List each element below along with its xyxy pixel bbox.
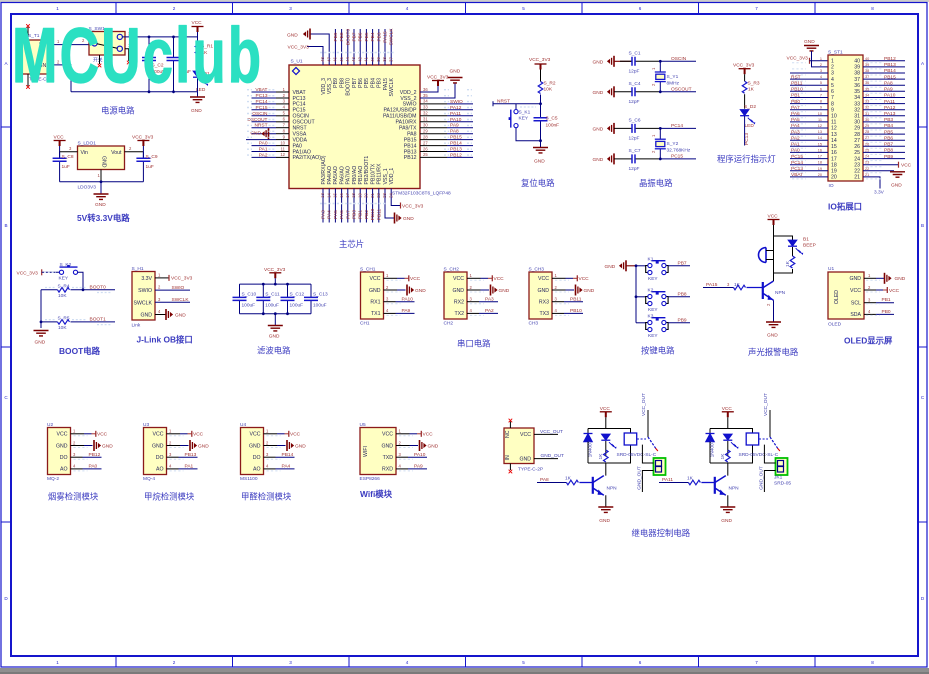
svg-text:VCC_3V3: VCC_3V3 xyxy=(427,75,449,81)
mcu top pin names xyxy=(321,77,395,96)
svg-text:PB4: PB4 xyxy=(884,123,893,129)
junction S_C2 xyxy=(148,36,151,39)
header S_H1 xyxy=(132,266,156,329)
U5 pin numbers xyxy=(399,429,402,469)
svg-text:OSCOUT: OSCOUT xyxy=(671,87,692,93)
svg-text:25: 25 xyxy=(865,148,869,152)
power symbol VCC xyxy=(54,135,66,159)
power symbol VCC xyxy=(768,214,780,237)
S_CH1 pin3 wire net PA10 xyxy=(384,297,415,303)
svg-text:PA0: PA0 xyxy=(89,464,98,470)
svg-text:PB10/TX: PB10/TX xyxy=(370,163,376,184)
svg-text:PB4: PB4 xyxy=(370,32,376,41)
svg-text:1N4007: 1N4007 xyxy=(588,440,594,457)
svg-text:VCC: VCC xyxy=(453,276,464,282)
svg-text:S_K2: S_K2 xyxy=(60,262,72,268)
svg-text:PB8: PB8 xyxy=(678,291,687,297)
resistor S_R2 10K xyxy=(538,81,556,104)
svg-text:VCC_3V3: VCC_3V3 xyxy=(264,267,286,273)
svg-text:PB15: PB15 xyxy=(450,135,462,141)
svg-text:5: 5 xyxy=(831,83,834,89)
svg-text:PB7: PB7 xyxy=(678,260,687,266)
svg-text:35: 35 xyxy=(854,89,860,95)
button S_K2 KEY xyxy=(59,262,78,282)
svg-text:18: 18 xyxy=(351,193,356,198)
U2 pin3 wire net PB12 xyxy=(71,452,102,458)
svg-text:S_CH3: S_CH3 xyxy=(529,267,545,273)
junctions bottom xyxy=(262,312,289,315)
svg-text:2: 2 xyxy=(173,660,176,665)
svg-text:3: 3 xyxy=(820,69,822,73)
svg-text:7: 7 xyxy=(755,660,758,665)
svg-text:33: 33 xyxy=(865,100,869,104)
connector U3 MQ-4 xyxy=(143,422,167,482)
svg-text:4: 4 xyxy=(831,77,834,83)
svg-text:BOOT0: BOOT0 xyxy=(346,78,352,96)
svg-text:VCC: VCC xyxy=(97,432,108,438)
svg-text:1K: 1K xyxy=(687,476,694,482)
svg-text:PB11: PB11 xyxy=(570,297,582,303)
svg-text:RX3: RX3 xyxy=(539,300,549,306)
svg-text:25: 25 xyxy=(423,152,428,157)
svg-text:PB5: PB5 xyxy=(364,32,370,41)
crystal S_Y1 8MHz xyxy=(651,61,680,92)
svg-text:PB6: PB6 xyxy=(358,78,364,88)
mcu top pin wires 48-37 xyxy=(307,29,391,65)
relay coil xyxy=(746,433,759,445)
svg-text:PA12: PA12 xyxy=(884,105,896,111)
svg-text:SWIO: SWIO xyxy=(172,285,185,291)
svg-text:GND: GND xyxy=(152,443,164,449)
svg-text:17: 17 xyxy=(831,156,837,162)
svg-text:40: 40 xyxy=(370,57,375,62)
svg-text:1: 1 xyxy=(56,660,59,665)
relay actuation dashed link xyxy=(637,438,646,440)
svg-text:VSS_1: VSS_1 xyxy=(383,168,389,184)
net label VCC_3V3 bottom VDD_1 xyxy=(401,203,424,210)
U4 pin2 wire to GND flag xyxy=(264,440,307,451)
svg-text:18: 18 xyxy=(818,161,822,165)
svg-text:VCC: VCC xyxy=(423,432,434,438)
svg-text:29: 29 xyxy=(423,129,428,134)
selection dashes mcu top xyxy=(320,52,394,54)
wire T1 VCC to SW1 xyxy=(53,44,89,46)
svg-text:6: 6 xyxy=(639,6,642,11)
relay output terminal block xyxy=(776,458,788,475)
svg-text:11: 11 xyxy=(281,146,286,151)
svg-text:GND: GND xyxy=(140,313,152,319)
svg-text:S_K1: S_K1 xyxy=(519,110,531,116)
junction bottom C2 xyxy=(148,90,151,93)
svg-text:GND: GND xyxy=(849,276,861,282)
top rail xyxy=(588,429,631,434)
svg-text:S_C1: S_C1 xyxy=(629,51,641,57)
svg-text:PB14: PB14 xyxy=(282,452,294,458)
svg-text:TX3: TX3 xyxy=(539,311,549,317)
base resistor 1K xyxy=(703,282,763,290)
svg-text:PA10: PA10 xyxy=(884,93,896,99)
svg-text:11: 11 xyxy=(818,118,822,122)
svg-text:8: 8 xyxy=(820,100,822,104)
capacitor S_C5 100nF xyxy=(534,104,560,141)
svg-text:TYPE-C-2P: TYPE-C-2P xyxy=(518,467,543,473)
svg-text:1K: 1K xyxy=(720,453,726,460)
svg-text:32: 32 xyxy=(423,111,428,116)
top rail xyxy=(240,283,312,285)
svg-text:DO: DO xyxy=(156,455,164,461)
ground symbol GND right xyxy=(448,69,463,83)
selection dashes boot xyxy=(44,107,536,325)
svg-text:35: 35 xyxy=(423,93,428,98)
node NRST xyxy=(539,102,542,105)
svg-text:VCC_3V3: VCC_3V3 xyxy=(171,276,193,282)
svg-text:GND: GND xyxy=(287,33,298,39)
svg-text:34: 34 xyxy=(423,99,428,104)
capacitor S_C8 1uF xyxy=(53,152,74,182)
svg-text:24: 24 xyxy=(854,156,860,162)
U2 pin1 wire to VCC xyxy=(71,431,108,438)
base resistor 1K PA11 xyxy=(659,476,715,485)
bottom rail xyxy=(710,445,753,463)
S_CH3 pin2 wire to GND flag xyxy=(552,285,595,296)
capacitor S_C9 1uF xyxy=(136,152,157,182)
svg-text:GND: GND xyxy=(804,39,815,45)
connector S_T2 TYPE-C-2P output xyxy=(504,428,543,473)
svg-text:GND: GND xyxy=(415,288,426,294)
svg-text:S_ST1: S_ST1 xyxy=(828,50,843,56)
svg-text:VCC: VCC xyxy=(768,214,779,220)
svg-text:IO拓展口: IO拓展口 xyxy=(828,202,862,212)
svg-text:35: 35 xyxy=(865,87,869,91)
svg-text:RX2: RX2 xyxy=(454,300,464,306)
svg-text:SWCLK: SWCLK xyxy=(134,300,153,306)
U3 pin3 wire net PB13 xyxy=(167,452,198,458)
power symbol VCC_3V3 right xyxy=(427,75,449,87)
power symbol VCC_3V3 xyxy=(132,135,154,159)
svg-text:1uF: 1uF xyxy=(62,164,70,170)
svg-text:VCC_3V3: VCC_3V3 xyxy=(529,57,551,63)
capacitor S_C13 100uF xyxy=(304,284,328,314)
svg-text:主芯片: 主芯片 xyxy=(339,239,364,249)
header left wires xyxy=(790,73,828,177)
svg-text:GND: GND xyxy=(767,333,778,339)
svg-text:S_C13: S_C13 xyxy=(313,291,328,297)
svg-text:3: 3 xyxy=(289,6,292,11)
row OSCOUT: gnd flag + cap S_C4 xyxy=(593,81,661,105)
wire GND_OUT xyxy=(534,453,564,459)
svg-text:KEY: KEY xyxy=(648,333,658,339)
ground GND top xyxy=(804,39,828,67)
wire pin23 VCC xyxy=(863,162,912,169)
svg-text:PB13: PB13 xyxy=(185,452,197,458)
junctions top xyxy=(262,283,289,286)
svg-text:12pF: 12pF xyxy=(629,166,640,172)
svg-text:VCC: VCC xyxy=(494,276,505,282)
svg-text:36: 36 xyxy=(423,87,428,92)
svg-text:NC: NC xyxy=(505,430,511,438)
svg-text:OSCIN: OSCIN xyxy=(252,111,268,117)
svg-text:LED: LED xyxy=(745,123,755,129)
svg-text:GND: GND xyxy=(250,131,261,137)
gnd flag VSSA xyxy=(250,128,268,139)
svg-text:5V转3.3V电路: 5V转3.3V电路 xyxy=(77,213,130,223)
pin3 wire SCL net PB1 xyxy=(864,297,894,303)
svg-text:S_C7: S_C7 xyxy=(629,148,641,154)
svg-text:10K: 10K xyxy=(58,325,67,331)
svg-text:GND: GND xyxy=(249,443,261,449)
svg-text:PB0: PB0 xyxy=(882,309,891,315)
svg-text:GND: GND xyxy=(95,202,106,208)
svg-text:38: 38 xyxy=(854,71,860,77)
svg-text:42: 42 xyxy=(357,57,362,62)
svg-text:U2: U2 xyxy=(47,422,53,428)
svg-text:31: 31 xyxy=(423,117,428,122)
svg-text:8: 8 xyxy=(871,6,874,11)
svg-text:复位电路: 复位电路 xyxy=(521,178,555,188)
svg-text:PA9: PA9 xyxy=(884,87,893,93)
svg-text:U4: U4 xyxy=(240,422,246,428)
svg-text:OLED: OLED xyxy=(834,290,840,304)
resistor S_R1 1K xyxy=(195,42,213,71)
svg-text:GND: GND xyxy=(191,108,202,114)
svg-text:33: 33 xyxy=(423,105,428,110)
svg-text:PB12: PB12 xyxy=(450,152,462,158)
header right wires xyxy=(863,61,905,159)
svg-text:26: 26 xyxy=(854,144,860,150)
svg-text:GND: GND xyxy=(537,288,549,294)
junction bottom xyxy=(539,139,542,142)
svg-text:GND: GND xyxy=(599,518,610,524)
power symbol VCC_3V3 xyxy=(733,63,755,82)
svg-text:Wifi模块: Wifi模块 xyxy=(360,489,393,499)
svg-text:S_U1: S_U1 xyxy=(291,59,303,65)
svg-text:14: 14 xyxy=(326,193,331,198)
svg-text:PB8: PB8 xyxy=(339,78,345,88)
svg-text:GND: GND xyxy=(269,334,280,340)
pin4 wire SDA net PB0 xyxy=(864,309,894,315)
svg-text:PB13: PB13 xyxy=(450,147,462,153)
svg-text:100uF: 100uF xyxy=(265,303,279,309)
svg-text:VCC_OUT: VCC_OUT xyxy=(641,393,647,416)
svg-text:GND: GND xyxy=(593,90,604,96)
svg-text:PB6: PB6 xyxy=(884,135,893,141)
svg-text:PA2/TX(AO): PA2/TX(AO) xyxy=(293,155,322,161)
svg-text:GND: GND xyxy=(605,264,616,270)
svg-text:PA10: PA10 xyxy=(402,297,414,303)
svg-text:32: 32 xyxy=(854,107,860,113)
svg-text:47: 47 xyxy=(326,57,331,62)
watermark MCUclub xyxy=(12,12,263,99)
S_CH3 pin1 wire to VCC xyxy=(552,275,589,282)
svg-text:PA10: PA10 xyxy=(450,117,462,123)
S_CH1 pin numbers xyxy=(386,273,389,313)
svg-text:PA8: PA8 xyxy=(884,80,893,86)
svg-text:GND: GND xyxy=(593,126,604,132)
U2 pin numbers xyxy=(73,429,76,469)
svg-text:5: 5 xyxy=(522,6,525,11)
net OSCOUT xyxy=(659,87,696,94)
svg-text:VDD_3: VDD_3 xyxy=(321,78,327,95)
svg-text:GND: GND xyxy=(593,59,604,65)
svg-text:B: B xyxy=(921,223,924,228)
svg-text:PB11: PB11 xyxy=(376,208,382,220)
svg-text:PA9: PA9 xyxy=(402,308,411,314)
svg-text:PA4/AO: PA4/AO xyxy=(327,166,333,184)
top rail xyxy=(710,429,753,434)
svg-text:VCC: VCC xyxy=(54,135,65,141)
svg-text:GND: GND xyxy=(403,216,414,222)
svg-text:44: 44 xyxy=(345,57,350,62)
svg-text:LDO3V3: LDO3V3 xyxy=(78,185,97,191)
svg-text:36: 36 xyxy=(865,81,869,85)
svg-text:PA8: PA8 xyxy=(540,477,549,483)
svg-text:PC14: PC14 xyxy=(671,123,683,129)
pin numbers 1-4 xyxy=(158,272,161,314)
U3 pin1 wire to VCC xyxy=(167,431,204,438)
S_CH2 pin2 wire to GND flag xyxy=(467,285,510,296)
svg-text:21: 21 xyxy=(865,173,869,177)
svg-text:GND: GND xyxy=(56,443,68,449)
connector S_CH2 CH2 xyxy=(444,267,468,327)
svg-text:PA6/AO: PA6/AO xyxy=(339,166,345,184)
mcu left pin wires 1-12 xyxy=(246,92,289,157)
svg-text:NPN: NPN xyxy=(729,486,740,492)
row PC14: gnd flag + cap S_C6 xyxy=(593,118,661,142)
net label VCC_3V3 top VDD_3 xyxy=(288,45,310,51)
svg-text:1K: 1K xyxy=(748,87,755,93)
U4 pin3 wire net PB14 xyxy=(264,452,295,458)
svg-text:U1: U1 xyxy=(828,266,834,272)
svg-text:KEY: KEY xyxy=(519,116,529,122)
net VCC_OUT vertical xyxy=(641,393,648,437)
LDO GND pin wire xyxy=(100,170,102,182)
U4 pin numbers xyxy=(266,429,269,469)
junction xyxy=(100,180,103,183)
svg-text:PA0: PA0 xyxy=(259,141,268,147)
wire SWCLK xyxy=(155,297,190,303)
column numbers bottom xyxy=(56,660,874,665)
svg-text:VCC: VCC xyxy=(889,288,900,294)
svg-text:PA15: PA15 xyxy=(383,31,389,43)
svg-text:1K: 1K xyxy=(565,476,572,482)
relay LED indicator xyxy=(723,434,738,456)
svg-text:GND: GND xyxy=(295,443,306,449)
svg-text:MS1100: MS1100 xyxy=(240,476,258,482)
svg-text:PA3/RX(AO): PA3/RX(AO) xyxy=(321,155,327,184)
svg-text:15: 15 xyxy=(818,142,822,146)
svg-text:PB12: PB12 xyxy=(884,56,896,62)
svg-text:PB9: PB9 xyxy=(333,78,339,88)
svg-text:38: 38 xyxy=(382,57,387,62)
svg-text:20: 20 xyxy=(818,173,822,177)
svg-text:30: 30 xyxy=(423,123,428,128)
svg-text:PB0: PB0 xyxy=(352,210,358,219)
svg-text:按键电路: 按键电路 xyxy=(641,346,675,356)
svg-text:8: 8 xyxy=(871,660,874,665)
ground GND xyxy=(268,314,283,340)
svg-text:43: 43 xyxy=(351,57,356,62)
oled U1 xyxy=(828,266,864,328)
svg-text:24: 24 xyxy=(865,155,869,159)
relay coil xyxy=(624,433,637,445)
row PC15: gnd flag + cap S_C7 xyxy=(593,148,661,172)
junction bus xyxy=(40,321,43,324)
svg-text:JK1: JK1 xyxy=(774,475,783,481)
svg-text:3.3V: 3.3V xyxy=(141,276,152,282)
svg-text:GND: GND xyxy=(369,288,381,294)
svg-text:SWCLK: SWCLK xyxy=(389,28,395,46)
power symbol VCC xyxy=(600,406,612,429)
svg-text:OSCOUT: OSCOUT xyxy=(247,117,268,123)
svg-text:VCC_OUT: VCC_OUT xyxy=(540,429,563,435)
resistor S_R3 1K xyxy=(742,81,760,109)
power symbol VCC_3V3 xyxy=(529,57,551,82)
svg-text:CH2: CH2 xyxy=(444,321,454,327)
svg-text:GND: GND xyxy=(534,159,545,165)
relay LED indicator xyxy=(601,434,616,456)
svg-text:SCL: SCL xyxy=(851,301,861,307)
svg-text:U5: U5 xyxy=(360,422,366,428)
svg-text:VCC_3V3: VCC_3V3 xyxy=(787,56,809,62)
svg-text:29: 29 xyxy=(854,126,860,132)
svg-text:S_Y2: S_Y2 xyxy=(667,141,679,147)
svg-text:36: 36 xyxy=(854,83,860,89)
svg-text:Vin: Vin xyxy=(81,150,89,156)
svg-text:PB14: PB14 xyxy=(884,68,896,74)
svg-text:VCC: VCC xyxy=(153,432,164,438)
wire pin21 3.3V xyxy=(863,177,885,196)
crystal S_Y2 32.768KHz xyxy=(651,128,691,159)
svg-text:PB2: PB2 xyxy=(364,210,370,219)
svg-text:S_Y1: S_Y1 xyxy=(667,74,679,80)
svg-text:VCC: VCC xyxy=(722,406,733,412)
svg-text:滤波电路: 滤波电路 xyxy=(257,346,291,356)
svg-text:IN: IN xyxy=(505,455,511,460)
row letters xyxy=(4,61,925,601)
top gray bar xyxy=(0,0,929,2)
flyback diode 1N4007 xyxy=(706,429,716,464)
svg-text:S_C11: S_C11 xyxy=(265,291,280,297)
SW1 pin numbers xyxy=(82,32,131,49)
svg-text:34: 34 xyxy=(854,95,860,101)
svg-text:VDD_1: VDD_1 xyxy=(389,168,395,185)
pin numbers xyxy=(868,273,871,314)
svg-text:甲烷检测模块: 甲烷检测模块 xyxy=(144,492,195,502)
wire Vout xyxy=(125,151,144,153)
relay series resistor 1K xyxy=(720,450,730,463)
svg-text:17: 17 xyxy=(345,193,350,198)
svg-text:GND_OUT: GND_OUT xyxy=(758,466,764,490)
resistor S_R4 10K xyxy=(41,283,115,299)
svg-text:6: 6 xyxy=(639,660,642,665)
svg-text:S_C10: S_C10 xyxy=(242,291,257,297)
bottom gray bar xyxy=(0,668,929,674)
svg-text:TX1: TX1 xyxy=(371,311,381,317)
svg-text:3: 3 xyxy=(289,660,292,665)
regulator S_LDO1 xyxy=(78,141,125,191)
wire GND with flag xyxy=(155,309,186,320)
svg-text:AO: AO xyxy=(156,467,164,473)
svg-text:34: 34 xyxy=(865,94,869,98)
svg-text:27: 27 xyxy=(865,136,869,140)
svg-text:S_C9: S_C9 xyxy=(146,154,158,160)
svg-text:10K: 10K xyxy=(544,87,553,93)
gnd flag top VSS_3 xyxy=(287,29,310,40)
relay actuation dashed link xyxy=(759,438,768,440)
svg-text:PA4: PA4 xyxy=(327,210,333,219)
svg-text:PB1: PB1 xyxy=(358,210,364,219)
svg-text:PB3: PB3 xyxy=(376,32,382,41)
